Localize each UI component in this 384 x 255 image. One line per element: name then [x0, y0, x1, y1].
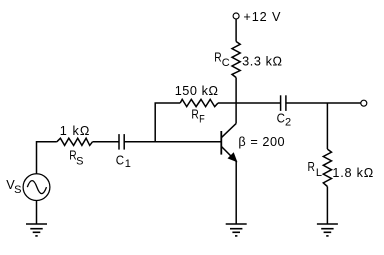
wire collector — [235, 103, 237, 123]
svg-text:R: R — [191, 108, 198, 122]
svg-text:F: F — [199, 113, 205, 125]
svg-text:L: L — [316, 167, 322, 179]
wire supply to RC — [235, 19, 237, 42]
resistor RC — [232, 42, 240, 78]
capacitor C2 — [280, 95, 282, 111]
svg-text:1.8 kΩ: 1.8 kΩ — [332, 166, 374, 180]
resistor RL — [323, 149, 331, 186]
wire VS to ground — [36, 201, 38, 224]
ground right — [317, 224, 338, 236]
terminal +12V — [233, 13, 239, 19]
svg-text:β = 200: β = 200 — [238, 135, 285, 149]
wire VS to RS — [37, 142, 57, 174]
resistor RS — [57, 138, 93, 145]
resistor RF — [180, 99, 218, 106]
wire RF to C2 — [218, 102, 281, 104]
svg-text:S: S — [14, 184, 21, 196]
svg-text:R: R — [214, 50, 221, 64]
svg-text:C: C — [277, 112, 285, 126]
wire emitter to ground — [235, 161, 237, 224]
svg-text:+12 V: +12 V — [243, 10, 281, 24]
svg-text:150 kΩ: 150 kΩ — [175, 84, 219, 98]
wire RC to collector node — [235, 78, 237, 104]
wire RL to ground — [326, 187, 328, 225]
wire RF left leg — [155, 103, 180, 142]
svg-text:3.3 kΩ: 3.3 kΩ — [242, 55, 282, 69]
capacitor C1 — [118, 134, 120, 150]
svg-text:2: 2 — [285, 117, 291, 129]
source VS — [23, 174, 50, 201]
svg-text:C: C — [222, 57, 230, 69]
wire node to RL — [326, 103, 328, 149]
svg-text:R: R — [308, 160, 315, 174]
svg-text:1: 1 — [125, 158, 131, 170]
ground emitter — [226, 224, 247, 236]
wire RS to C1 — [93, 141, 120, 143]
ground source — [26, 224, 47, 236]
wire C2 to output terminal — [286, 102, 361, 104]
wire base — [124, 141, 221, 143]
terminal output — [361, 100, 367, 106]
svg-text:S: S — [76, 156, 83, 168]
svg-text:C: C — [116, 154, 124, 168]
transistor Q1 — [221, 123, 236, 161]
svg-text:1 kΩ: 1 kΩ — [60, 124, 91, 138]
